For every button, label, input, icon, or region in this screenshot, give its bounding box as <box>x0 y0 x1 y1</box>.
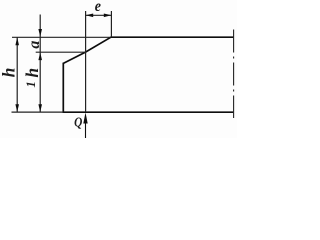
extension line vertical at chamfer top corner <box>110 11 112 37</box>
workpiece chamfer upper segment <box>86 37 111 52</box>
svg-text:h: h <box>0 68 19 78</box>
force Q arrowhead <box>83 113 87 124</box>
svg-text:e: e <box>95 0 101 15</box>
svg-text:Q: Q <box>74 116 82 131</box>
extension line L1 (top edge level, left) <box>12 36 111 38</box>
workpiece bottom edge <box>63 111 234 113</box>
svg-text:h: h <box>22 68 42 78</box>
workpiece top edge <box>111 36 234 38</box>
dimension a / h1 shared line <box>39 15 41 113</box>
workpiece chamfer lower segment <box>63 52 85 63</box>
svg-text:1: 1 <box>23 81 38 88</box>
dimension a / h1 arrowhead below L3 (pointing up) <box>38 52 42 60</box>
centerline (dash-dot) at right <box>233 30 235 119</box>
svg-text:a: a <box>26 41 43 49</box>
dimension e line <box>86 14 112 16</box>
dimension a upper arrowhead (above L1, pointing down) <box>38 29 42 37</box>
dimension h line <box>16 37 18 112</box>
dimension h bottom arrowhead <box>15 104 19 112</box>
extension line L4 (bottom edge level, left) <box>12 111 64 113</box>
extension line L3 (step depth level) <box>36 51 86 53</box>
dimension e right arrowhead <box>104 14 112 18</box>
workpiece left edge <box>62 63 64 113</box>
dimension h1 bottom arrowhead <box>38 104 42 112</box>
dimension h top arrowhead <box>15 37 19 45</box>
force Q arrow shaft <box>85 122 87 138</box>
dimension e left arrowhead <box>86 14 94 18</box>
extension line vertical at step knee / Q action line <box>85 11 87 112</box>
